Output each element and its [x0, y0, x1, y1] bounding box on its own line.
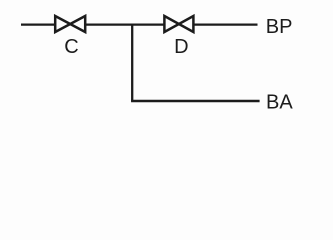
svg-text:D: D [174, 36, 188, 58]
svg-text:BP: BP [266, 16, 293, 38]
wire bottom segment to BA [131, 100, 260, 102]
valve C (bowtie symbol) [55, 16, 85, 32]
wire left segment to valve C [21, 23, 55, 25]
svg-text:C: C [64, 36, 78, 58]
svg-text:BA: BA [266, 91, 293, 113]
wire middle segment between valve C and valve D [86, 23, 164, 25]
valve D (bowtie symbol) [164, 16, 193, 32]
wire vertical branch from junction [131, 24, 133, 102]
wire right segment from valve D to BP [193, 23, 257, 25]
